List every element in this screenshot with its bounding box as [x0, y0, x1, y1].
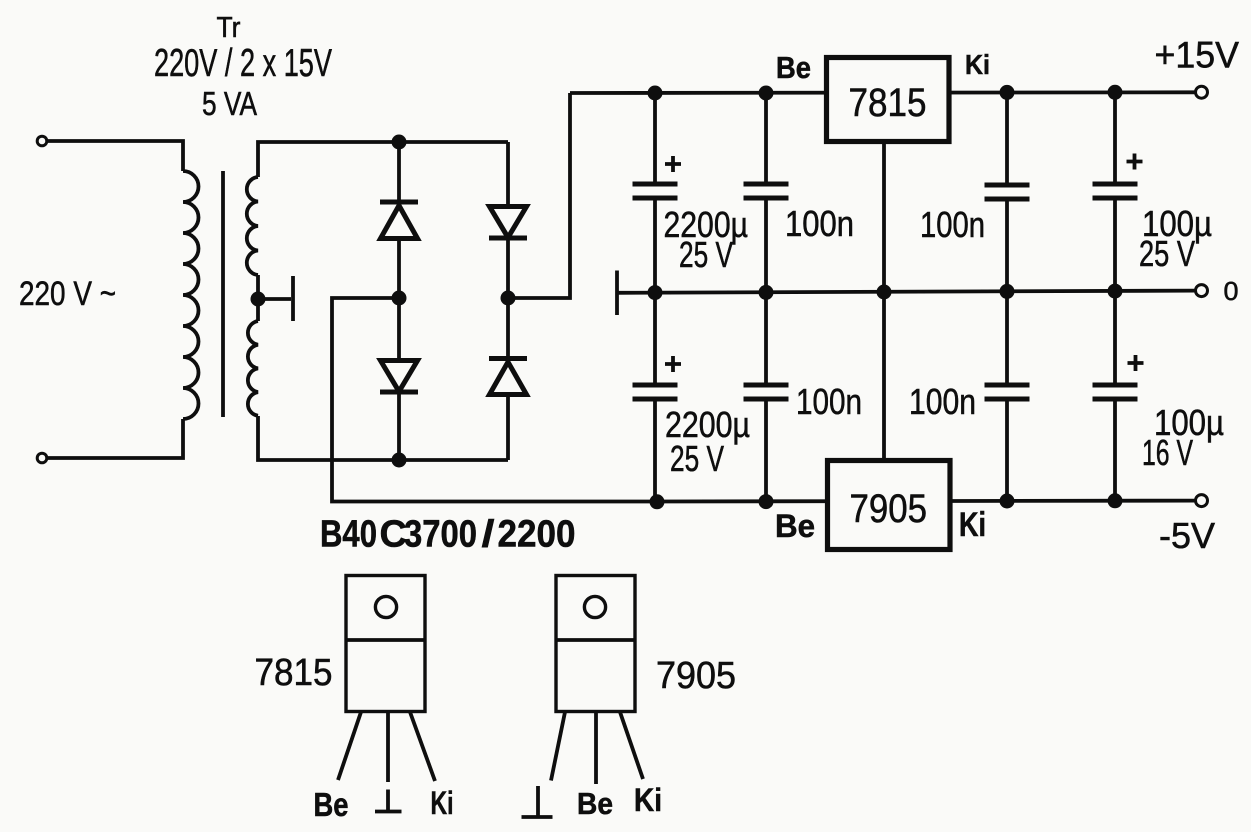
wire bridge left branch — [397, 142, 401, 460]
svg-text:7905: 7905 — [850, 487, 928, 531]
wire 0 rail — [617, 291, 1196, 293]
pin Ki leg 7905 — [620, 712, 643, 779]
node bridge right mid junction — [501, 291, 516, 306]
wire -5V bottom rail — [655, 499, 1196, 504]
terminal 0 — [1196, 285, 1208, 297]
polarity + C1 — [665, 156, 681, 172]
ground symbol 7905 — [522, 786, 553, 817]
wire regulator ground pins — [882, 142, 886, 461]
transformer Tr secondary winding lower — [248, 321, 258, 416]
capacitor C8 bottom lead — [1113, 401, 1117, 501]
capacitor C5 2200u 25V top lead — [653, 293, 657, 383]
capacitor C3 100n top lead — [1005, 92, 1009, 183]
node 0 rail junctions — [648, 285, 663, 300]
svg-text:7905: 7905 — [656, 655, 736, 697]
capacitor C1 plates — [633, 182, 678, 187]
pin ground leg 7905 — [551, 712, 565, 781]
wire secondary top lead — [258, 142, 508, 177]
svg-text:220 V ~: 220 V ~ — [19, 275, 116, 313]
capacitor C7 plates — [985, 383, 1030, 388]
wire bridge right branch — [506, 142, 510, 460]
diode D4 — [490, 362, 527, 395]
svg-text:Ki: Ki — [965, 49, 990, 80]
package 7905 tab divider — [556, 638, 635, 642]
regulator U2 7905 — [828, 461, 951, 550]
polarity + C8 — [1128, 355, 1144, 371]
capacitor C6 bottom lead — [764, 401, 768, 502]
node bridge left bottom junction — [392, 453, 407, 468]
package 7815 tab divider — [346, 638, 425, 642]
package 7905 body — [556, 576, 635, 712]
terminal primary bottom — [37, 453, 47, 463]
wire bridge left mid to down corner — [332, 298, 657, 502]
capacitor C4 bottom lead — [1113, 200, 1117, 291]
svg-text:-5V: -5V — [1159, 515, 1215, 556]
svg-text:25 V: 25 V — [670, 438, 724, 479]
pin Ki leg 7815 — [410, 712, 435, 781]
diode D4 cathode bar — [489, 356, 527, 361]
capacitor C3 plates — [985, 183, 1030, 188]
capacitor C2 100n top lead — [764, 93, 768, 182]
wire primary top — [47, 141, 183, 171]
capacitor C1 2200u 25V top lead — [653, 93, 657, 182]
svg-text:B40C3700/2200: B40C3700/2200 — [320, 514, 576, 556]
wire secondary bottom lead — [258, 416, 508, 460]
capacitor C2 plates — [744, 182, 789, 187]
capacitor C8 100u 16V top lead — [1113, 291, 1117, 383]
capacitor C8 plates — [1093, 383, 1138, 388]
package 7905 mounting hole — [584, 596, 605, 617]
diode D3 cathode bar — [489, 236, 527, 241]
node center tap junction — [251, 292, 266, 307]
polarity + C5 — [665, 356, 681, 372]
svg-text:7815: 7815 — [255, 652, 333, 694]
svg-text:220V / 2 x 15V: 220V / 2 x 15V — [154, 42, 332, 85]
capacitor C6 plates — [744, 383, 789, 388]
diode D1 — [381, 206, 418, 239]
capacitor C4 100u 25V top lead — [1113, 92, 1117, 182]
svg-text:Ki: Ki — [959, 506, 986, 544]
node bottom rail junctions — [650, 494, 665, 509]
capacitor C4 plates — [1093, 182, 1138, 187]
capacitor C3 bottom lead — [1005, 201, 1009, 291]
svg-text:Tr: Tr — [217, 12, 241, 44]
diode D1 cathode bar — [380, 200, 418, 205]
svg-text:25 V: 25 V — [1139, 233, 1195, 274]
svg-text:+15V: +15V — [1155, 35, 1240, 76]
package 7815 mounting hole — [375, 596, 396, 617]
pin Be leg 7815 — [338, 712, 361, 780]
ground symbol 7815 — [375, 790, 402, 812]
connector bar center tap — [291, 276, 295, 321]
capacitor C5 bottom lead — [653, 401, 657, 502]
svg-text:100n: 100n — [909, 381, 976, 422]
svg-text:100n: 100n — [920, 204, 985, 245]
svg-text:5 VA: 5 VA — [202, 85, 257, 122]
diode D2 — [381, 361, 418, 392]
svg-text:Be: Be — [314, 786, 349, 823]
pin Be leg 7905 — [594, 712, 598, 784]
package 7815 body — [346, 576, 425, 712]
svg-text:0: 0 — [1224, 276, 1239, 306]
wire center tap stub — [258, 297, 291, 301]
svg-text:100n: 100n — [785, 203, 854, 244]
terminal primary top — [37, 136, 47, 146]
wire center tap to winding — [256, 275, 260, 321]
node bridge left mid junction — [392, 291, 407, 306]
svg-text:7815: 7815 — [849, 81, 927, 125]
capacitor C6 100n top lead — [764, 292, 768, 383]
diode D3 — [490, 207, 527, 238]
transformer core — [221, 171, 225, 417]
terminal -5V — [1196, 495, 1208, 507]
capacitor C5 plates — [633, 383, 678, 388]
wire bridge right mid to top rail — [508, 93, 570, 298]
svg-text:100n: 100n — [796, 381, 862, 422]
diode D2 cathode bar — [380, 390, 418, 395]
regulator U1 7815 — [827, 58, 950, 142]
node bridge left top junction — [392, 135, 407, 150]
capacitor C7 100n top lead — [1005, 291, 1009, 383]
svg-text:Ki: Ki — [431, 785, 454, 821]
transformer Tr secondary winding upper — [247, 177, 258, 275]
capacitor C7 bottom lead — [1005, 401, 1009, 501]
terminal +15V — [1196, 86, 1208, 98]
svg-text:Be: Be — [775, 508, 815, 544]
node top rail junctions — [648, 86, 663, 101]
pin ground leg 7815 — [386, 712, 390, 782]
svg-text:16 V: 16 V — [1142, 432, 1193, 473]
svg-text:25 V: 25 V — [679, 234, 733, 275]
capacitor C1 bottom lead — [653, 200, 657, 293]
svg-text:Be: Be — [776, 50, 811, 85]
svg-text:Be: Be — [577, 786, 613, 821]
connector bar 0 rail — [615, 271, 619, 316]
wire +15V top rail — [570, 90, 1196, 94]
polarity + C4 — [1127, 154, 1143, 170]
wire primary bottom — [47, 419, 183, 458]
capacitor C2 bottom lead — [764, 200, 768, 292]
svg-text:Ki: Ki — [634, 782, 662, 818]
transformer Tr primary winding — [183, 171, 198, 419]
